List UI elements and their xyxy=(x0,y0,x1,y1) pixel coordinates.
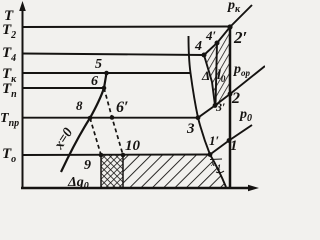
state point 10 xyxy=(121,153,126,158)
state point 2 xyxy=(228,92,233,97)
saturated liquid line x=0 (through 9-8-6-5) xyxy=(61,73,107,172)
state point 3 xyxy=(196,115,201,120)
svg-text:6: 6 xyxy=(91,74,98,89)
svg-text:Δ: Δ xyxy=(201,68,210,83)
svg-text:x: x xyxy=(210,159,215,168)
state point 4' xyxy=(215,41,220,46)
isentrope 3'-4' xyxy=(216,43,218,106)
state point 1 xyxy=(227,138,232,143)
svg-text:9: 9 xyxy=(84,158,91,173)
svg-text:1: 1 xyxy=(217,163,221,172)
svg-text:2: 2 xyxy=(231,90,240,107)
svg-text:4′: 4′ xyxy=(205,28,217,43)
small x=1 annotation bar near 1' xyxy=(210,158,222,161)
s axis (horizontal) xyxy=(21,187,253,189)
svg-text:2′: 2′ xyxy=(233,28,247,47)
svg-text:1: 1 xyxy=(230,138,238,154)
isobar pk (through 4-4'-2') xyxy=(204,5,252,55)
svg-text:4: 4 xyxy=(194,39,202,54)
isobar ppr (through 3-3'-2) xyxy=(198,66,265,118)
state point 3' xyxy=(213,103,218,108)
saturated vapour line x=1 (through 3 and 1') xyxy=(189,36,227,187)
isotherm Tk xyxy=(22,72,190,74)
dashed throttling line 8-9 xyxy=(90,118,101,155)
svg-text:3′: 3′ xyxy=(215,100,225,114)
isentrope 1-2-2' (vertical) xyxy=(229,27,232,188)
boundary line below point 9 xyxy=(100,155,102,187)
hatched wedge dl0 (extra work area 4-4'-2'-2-3') xyxy=(204,27,230,106)
hatched area q0 (9-10 to vapour line) xyxy=(123,155,226,188)
isotherm Tpr xyxy=(22,117,198,119)
T axis arrowhead xyxy=(19,1,26,11)
svg-text:5: 5 xyxy=(95,57,102,72)
isotherm Tp xyxy=(22,87,104,89)
svg-text:10: 10 xyxy=(125,138,141,154)
dashed throttling line 6-6'-10 xyxy=(104,88,123,155)
boundary line below point 10 xyxy=(122,155,124,187)
T axis (vertical) xyxy=(22,7,24,188)
state point 8 xyxy=(88,116,93,121)
svg-text:1′: 1′ xyxy=(209,133,220,148)
state point 2' xyxy=(227,24,232,29)
svg-text:8: 8 xyxy=(76,98,83,113)
state point 1' xyxy=(208,152,213,157)
state point 4 xyxy=(202,53,207,58)
svg-text:3: 3 xyxy=(186,121,195,137)
isotherm T2 xyxy=(22,26,230,29)
state point 6' xyxy=(110,115,115,120)
state point 6 xyxy=(102,86,107,91)
state point 9 xyxy=(99,153,104,158)
small curve of x=1 annotation xyxy=(216,171,224,173)
state point 5 xyxy=(104,71,109,76)
cross-hatched area dq0 (between 9 and 10) xyxy=(101,155,123,187)
isotherm T4 xyxy=(22,54,204,56)
isobar p0 (through 1'-1) xyxy=(210,125,252,155)
svg-text:6′: 6′ xyxy=(116,99,129,116)
compression line 4-3' xyxy=(204,55,215,106)
s axis arrowhead xyxy=(248,185,259,191)
isotherm To xyxy=(22,154,210,157)
